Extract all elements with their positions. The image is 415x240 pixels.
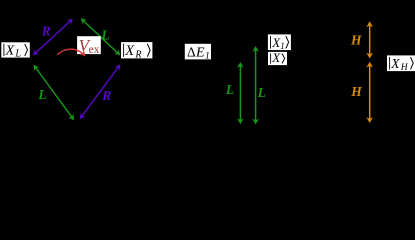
node |X_L> [1, 42, 30, 59]
green vertical arrow L (right, |X_1>) [252, 46, 259, 125]
svg-text:X: X [5, 43, 15, 58]
node V_ex (exchange coupling) [77, 36, 101, 56]
svg-text:L: L [225, 82, 234, 97]
svg-text:X: X [124, 43, 135, 59]
node |X_R> [121, 42, 152, 60]
orange vertical arrow H (bottom) [366, 62, 373, 123]
svg-text:1: 1 [205, 52, 210, 62]
red curved exchange arrow [58, 49, 86, 56]
svg-text:L: L [257, 85, 266, 100]
node Delta E_1 [185, 44, 211, 62]
green vertical arrow L (left, |X>) [237, 62, 244, 124]
svg-text:L: L [14, 49, 21, 60]
svg-text:R: R [101, 88, 111, 103]
wire: green L transition apex to |X_R> [81, 18, 121, 55]
svg-text:H: H [350, 84, 362, 99]
svg-text:H: H [400, 63, 409, 73]
orange vertical arrow H (top) [366, 21, 373, 58]
svg-text:1: 1 [280, 41, 285, 51]
svg-text:R: R [41, 23, 51, 38]
svg-text:Δ: Δ [187, 44, 196, 59]
wire: blue R transition bottom to |X_R> [80, 64, 121, 119]
node |X_H> [387, 55, 415, 73]
wire: green L transition |X_L> to bottom [34, 65, 75, 121]
svg-text:X: X [271, 50, 281, 65]
svg-text:ex: ex [89, 44, 100, 56]
node |X_1> [268, 34, 291, 51]
svg-text:H: H [350, 33, 362, 48]
svg-text:R: R [134, 49, 141, 60]
svg-text:L: L [37, 87, 46, 102]
svg-text:X: X [390, 56, 400, 71]
svg-text:L: L [100, 27, 109, 42]
node |X> [268, 50, 287, 65]
wire: blue R transition |X_L> to apex [33, 19, 73, 56]
svg-text:E: E [195, 45, 205, 60]
